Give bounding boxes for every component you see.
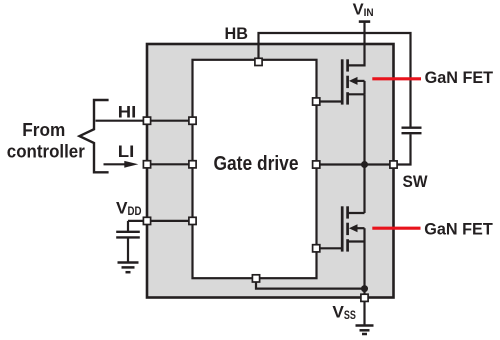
svg-text:LI: LI bbox=[118, 142, 135, 161]
IC package outline U1 bbox=[147, 44, 394, 298]
transistor Q1 high-side GaN FET bbox=[317, 59, 365, 104]
svg-text:GaN FET: GaN FET bbox=[425, 68, 494, 87]
ground for VSS bbox=[356, 302, 374, 334]
svg-text:Gate drive: Gate drive bbox=[214, 153, 299, 175]
capacitor C1 VDD bypass bbox=[116, 221, 140, 262]
svg-text:controller: controller bbox=[7, 141, 85, 161]
pin HB bbox=[255, 58, 262, 65]
svg-text:VDD: VDD bbox=[116, 198, 142, 218]
red callout line for Q2 bbox=[372, 227, 420, 230]
ground for C1 bbox=[118, 263, 139, 273]
pin VDD inner bbox=[189, 217, 196, 224]
red callout line for Q1 bbox=[372, 77, 421, 80]
pin HO gate bbox=[313, 98, 320, 105]
wire LI input with arrowhead bbox=[104, 161, 193, 168]
bracket from controller bbox=[80, 100, 109, 172]
wire HI input bbox=[96, 120, 193, 122]
svg-text:SW: SW bbox=[403, 172, 429, 191]
wire Q2 source to VSS bbox=[363, 242, 365, 303]
pin HI inner bbox=[189, 117, 196, 124]
pin LI inner bbox=[189, 161, 196, 168]
svg-text:VIN: VIN bbox=[353, 1, 374, 19]
pin SW outer bbox=[390, 161, 397, 168]
pin VSS outer bbox=[361, 294, 368, 301]
supply VIN terminal bbox=[359, 22, 370, 67]
junction SW bbox=[361, 161, 368, 168]
label From controller bbox=[7, 120, 85, 161]
wire SW node bbox=[317, 163, 394, 165]
svg-text:GaN FET: GaN FET bbox=[424, 220, 493, 239]
wire gate-drive VSS return bbox=[256, 278, 365, 288]
transistor Q2 low-side GaN FET bbox=[317, 206, 365, 251]
capacitor C2 bootstrap bbox=[394, 128, 422, 165]
svg-text:From: From bbox=[22, 120, 65, 140]
wire Q1 source to Q2 drain bbox=[363, 94, 365, 213]
wire HB bootstrap bbox=[259, 33, 411, 127]
pin LI outer bbox=[143, 161, 150, 168]
pin SW inner bbox=[313, 161, 320, 168]
pin LO gate bbox=[313, 245, 320, 252]
pin HI outer bbox=[143, 117, 150, 124]
svg-text:VSS: VSS bbox=[332, 303, 356, 323]
svg-text:HB: HB bbox=[225, 24, 249, 43]
junction VSS bbox=[361, 285, 368, 292]
svg-text:HI: HI bbox=[118, 103, 137, 122]
pin VSS inner bbox=[252, 275, 259, 282]
pin VDD outer bbox=[143, 217, 150, 224]
wire VDD bbox=[128, 220, 193, 222]
gate drive block bbox=[193, 60, 317, 278]
